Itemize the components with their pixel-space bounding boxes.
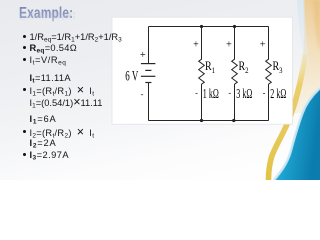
designator label R1: [205, 60, 215, 75]
junction node top R1: [200, 25, 203, 28]
svg-text:-: -: [228, 87, 231, 97]
svg-text:+: +: [193, 40, 199, 51]
svg-text:+: +: [226, 40, 232, 51]
battery V1 (6 V): [141, 27, 156, 121]
wire bottom bus: [149, 120, 269, 122]
designator label R2: [239, 60, 249, 75]
resistor R2: [232, 27, 238, 121]
svg-text:+: +: [140, 50, 146, 61]
wire top bus: [149, 26, 269, 28]
svg-text:1 kΩ: 1 kΩ: [203, 86, 219, 101]
svg-text:-: -: [195, 87, 198, 97]
svg-text:-: -: [141, 89, 144, 99]
svg-text:-: -: [263, 87, 266, 97]
figure panel: [112, 17, 293, 124]
svg-text:+: +: [260, 40, 266, 51]
resistor R1: [199, 27, 205, 121]
resistor R3: [266, 27, 272, 121]
svg-text:6 V: 6 V: [125, 69, 138, 85]
junction node bottom R2: [232, 119, 235, 122]
designator label R3: [273, 60, 283, 75]
junction node bottom R1: [200, 119, 203, 122]
svg-text:2 kΩ: 2 kΩ: [270, 86, 286, 101]
svg-text:3 kΩ: 3 kΩ: [236, 86, 252, 101]
junction node top R2: [233, 25, 236, 28]
